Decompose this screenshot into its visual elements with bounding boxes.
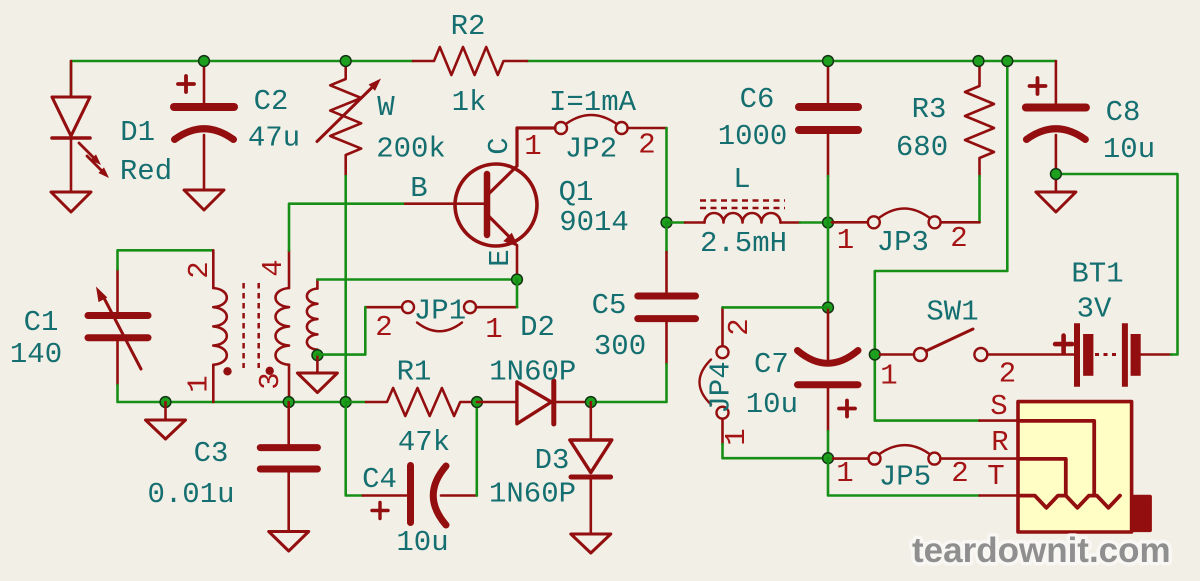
phone jack sleeve tab — [1132, 495, 1152, 532]
capacitor C3 — [260, 402, 317, 532]
wire C4 right up to R1 right node — [475, 402, 478, 496]
junction dot pot/C4 node — [340, 397, 351, 408]
svg-text:SW1: SW1 — [926, 296, 978, 329]
wire base B — [289, 204, 403, 251]
svg-text:JP4: JP4 — [705, 361, 738, 413]
svg-text:D3: D3 — [535, 444, 570, 477]
ground below C8 — [1036, 192, 1076, 212]
junction dot C2 top — [199, 56, 210, 67]
wire battery plus net — [875, 61, 1008, 421]
svg-text:Red: Red — [120, 155, 172, 188]
ground below winding3 — [316, 355, 319, 373]
polarity dot winding 1 — [223, 367, 231, 375]
jumper JP2 — [555, 115, 667, 134]
svg-text:L: L — [733, 163, 750, 196]
junction dot L left — [661, 217, 672, 228]
svg-text:S: S — [990, 390, 1007, 423]
svg-text:C1: C1 — [24, 306, 59, 339]
svg-text:JP3: JP3 — [877, 226, 929, 259]
capacitor C6 — [799, 61, 858, 176]
junction dot C3 node — [283, 397, 294, 408]
svg-text:1N60P: 1N60P — [489, 356, 576, 389]
wire JP1-2 to winding3 node — [317, 307, 365, 354]
transformer winding 3 — [307, 280, 318, 356]
transistor Q1 — [403, 128, 555, 274]
wire JP2-2 down to L node — [665, 128, 668, 223]
svg-text:200k: 200k — [376, 133, 446, 166]
wire C6 node down to C7 node — [827, 223, 830, 308]
svg-text:2: 2 — [723, 318, 756, 335]
svg-text:2: 2 — [950, 222, 967, 255]
resistor R1 — [346, 388, 477, 416]
svg-text:D2: D2 — [520, 311, 555, 344]
svg-text:300: 300 — [594, 330, 646, 363]
svg-text:JP1: JP1 — [414, 295, 466, 328]
wire top power bus right of R2 — [527, 60, 1056, 63]
diode D2 — [477, 381, 591, 424]
svg-text:C5: C5 — [592, 289, 627, 322]
wire pot bottom vertical — [344, 176, 347, 402]
capacitor C7 polarized — [798, 308, 859, 432]
junction dot pot top — [340, 56, 351, 67]
jumper JP3 — [832, 209, 980, 229]
svg-text:2: 2 — [375, 311, 392, 344]
junction dot C8 bottom — [1051, 169, 1062, 180]
svg-text:C6: C6 — [740, 83, 775, 116]
svg-text:10u: 10u — [1103, 133, 1155, 166]
svg-text:2: 2 — [951, 457, 968, 490]
jack pin leads — [980, 421, 1018, 496]
svg-text:teardownit.com: teardownit.com — [912, 531, 1171, 570]
svg-text:140: 140 — [10, 338, 62, 371]
svg-text:2: 2 — [183, 261, 216, 278]
svg-text:10u: 10u — [746, 388, 798, 421]
junction dot C7 top — [823, 302, 834, 313]
svg-text:10u: 10u — [396, 526, 448, 559]
wire battery minus to C8 ground — [1061, 174, 1178, 355]
svg-text:I=1mA: I=1mA — [549, 86, 637, 119]
phone jack J1 body — [1018, 402, 1132, 532]
svg-text:1000: 1000 — [718, 120, 788, 153]
svg-text:W: W — [377, 91, 395, 124]
svg-text:JP5: JP5 — [879, 461, 931, 494]
svg-text:1: 1 — [485, 313, 502, 346]
svg-text:1: 1 — [880, 360, 897, 393]
junction dot C6 top — [823, 56, 834, 67]
svg-text:2.5mH: 2.5mH — [700, 227, 787, 260]
ground below C3 — [269, 532, 309, 552]
wire JP4-2 to C7 top node — [723, 306, 829, 309]
transformer T1 — [213, 250, 289, 402]
jack internal contacts — [1019, 421, 1120, 508]
svg-text:R1: R1 — [397, 356, 432, 389]
jumper JP4 vertical — [700, 307, 729, 444]
jumper JP5 — [833, 445, 1018, 465]
svg-text:R3: R3 — [912, 93, 947, 126]
svg-text:D1: D1 — [120, 116, 155, 149]
polarity dot winding 2 — [266, 367, 274, 375]
capacitor C2 polarized — [174, 61, 234, 190]
svg-text:1: 1 — [182, 375, 215, 392]
ground below D1 — [51, 192, 91, 212]
svg-text:BT1: BT1 — [1071, 258, 1123, 291]
ground below C2 — [184, 190, 224, 210]
jumper JP1 — [365, 301, 517, 331]
junction dot emitter — [512, 274, 523, 285]
svg-text:47u: 47u — [248, 122, 300, 155]
junction dot bus x1007 — [1002, 56, 1013, 67]
svg-text:C8: C8 — [1106, 96, 1141, 129]
battery BT1 — [1055, 323, 1172, 387]
junction dot winding3 bottom — [312, 350, 323, 361]
svg-text:T: T — [987, 460, 1004, 493]
wire emitter to winding3 top — [317, 278, 517, 281]
svg-text:JP2: JP2 — [565, 133, 617, 166]
svg-text:3V: 3V — [1077, 293, 1112, 326]
svg-text:B: B — [410, 172, 427, 205]
svg-text:R: R — [991, 426, 1008, 459]
svg-text:E: E — [484, 249, 517, 266]
svg-text:1k: 1k — [452, 86, 487, 119]
resistor R2 — [413, 47, 527, 75]
svg-text:0.01u: 0.01u — [147, 478, 234, 511]
svg-text:3: 3 — [254, 372, 287, 389]
LED D1 — [52, 61, 104, 192]
svg-text:R2: R2 — [451, 10, 486, 43]
svg-text:1: 1 — [720, 428, 753, 445]
junction dot L right — [823, 217, 834, 228]
junction dot C7 bottom — [823, 453, 834, 464]
svg-text:680: 680 — [896, 131, 948, 164]
svg-text:9014: 9014 — [559, 206, 629, 239]
variable capacitor C1 — [88, 269, 148, 385]
ground at C1 node — [164, 402, 167, 420]
junction dot R3 top — [973, 56, 984, 67]
junction dot R1/D2/C4 node — [472, 397, 483, 408]
junction dot SW node — [869, 349, 880, 360]
capacitor C8 polarized — [1026, 61, 1086, 192]
potentiometer W 200k — [317, 61, 375, 176]
inductor L 2.5mH — [667, 201, 824, 223]
svg-text:1: 1 — [836, 457, 853, 490]
svg-text:Q1: Q1 — [559, 176, 594, 209]
svg-text:1N60P: 1N60P — [489, 478, 576, 511]
junction dot D2/D3 node — [585, 397, 596, 408]
wire JP1-1 up to emitter — [516, 280, 519, 308]
svg-text:1: 1 — [837, 224, 854, 257]
wire C7 bottom down to T line — [828, 458, 980, 495]
svg-text:4: 4 — [257, 259, 290, 276]
resistor R3 — [965, 61, 994, 176]
svg-text:C7: C7 — [754, 348, 789, 381]
svg-text:C2: C2 — [254, 85, 289, 118]
wire top power bus left of R2 — [71, 61, 413, 97]
svg-text:1: 1 — [524, 130, 541, 163]
ground below D3 — [571, 534, 611, 553]
svg-text:2: 2 — [999, 358, 1016, 391]
junction dot C1 ground node — [160, 397, 171, 408]
svg-text:C3: C3 — [194, 437, 229, 470]
wire C1 bottom to ground bus — [118, 385, 346, 402]
svg-text:C4: C4 — [362, 463, 397, 496]
svg-text:C: C — [483, 137, 516, 154]
capacitor C4 polarized rotated — [346, 402, 477, 525]
diode D3 — [570, 402, 612, 534]
svg-text:47k: 47k — [398, 426, 450, 459]
wire JP4-1 to C7 bottom node — [723, 444, 829, 458]
capacitor C5 — [638, 223, 696, 365]
switch SW1 — [880, 329, 1075, 361]
svg-text:2: 2 — [638, 129, 655, 162]
wire C1 top to transformer pin2 — [118, 250, 213, 269]
